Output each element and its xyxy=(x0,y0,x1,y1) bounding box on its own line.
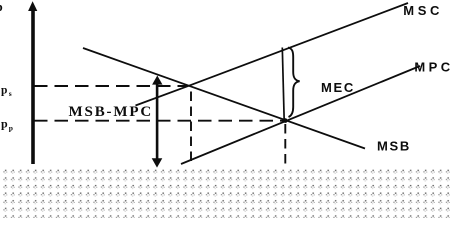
svg-text:p: p xyxy=(0,0,3,14)
svg-text:MSB: MSB xyxy=(377,139,411,154)
vertical line from MSC to MPC at brace xyxy=(282,48,284,122)
MSC supply line xyxy=(136,3,409,106)
dashed vertical line at q_p xyxy=(284,124,286,167)
svg-text:MEC: MEC xyxy=(321,80,355,95)
svg-text:MSC: MSC xyxy=(403,3,443,18)
svg-text:p: p xyxy=(9,124,13,133)
dashed horizontal line at p_s xyxy=(34,85,188,87)
svg-text:p: p xyxy=(1,85,7,97)
dashed horizontal line at p_p xyxy=(34,120,285,122)
y-axis arrowhead xyxy=(28,1,37,11)
svg-text:p: p xyxy=(1,117,8,131)
svg-text:MSB-MPC: MSB-MPC xyxy=(69,104,154,120)
MSB demand line xyxy=(83,48,365,149)
MPC supply line xyxy=(181,66,420,164)
double-headed arrow MSB-MPC gap xyxy=(152,76,163,168)
curly brace for MEC xyxy=(288,48,300,118)
svg-text:s: s xyxy=(9,89,12,98)
ink blob at MPC-MSB junction xyxy=(283,118,288,123)
halftone texture band at bottom of scan xyxy=(0,167,451,218)
dashed vertical line at q_s xyxy=(190,92,192,167)
svg-text:MPC: MPC xyxy=(414,60,451,75)
y-axis vertical line xyxy=(31,10,35,164)
